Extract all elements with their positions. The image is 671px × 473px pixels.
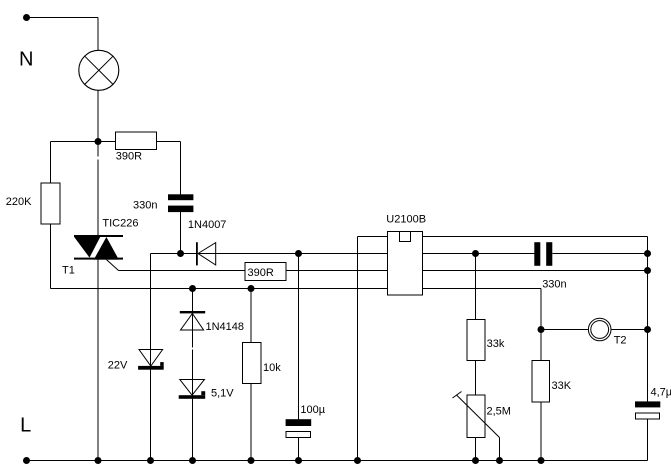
svg-text:220K: 220K <box>6 196 32 208</box>
svg-text:L: L <box>20 415 31 437</box>
svg-text:4,7µ: 4,7µ <box>651 387 671 399</box>
svg-text:10k: 10k <box>263 362 281 374</box>
svg-text:330n: 330n <box>542 279 566 291</box>
svg-text:22V: 22V <box>108 359 128 371</box>
svg-text:330n: 330n <box>133 200 157 212</box>
svg-text:100µ: 100µ <box>300 404 325 416</box>
svg-text:T1: T1 <box>62 264 75 276</box>
svg-text:1N4007: 1N4007 <box>188 219 227 231</box>
svg-text:33K: 33K <box>552 380 572 392</box>
svg-text:TIC226: TIC226 <box>102 217 138 229</box>
svg-text:N: N <box>19 49 33 71</box>
svg-text:390R: 390R <box>116 151 142 163</box>
svg-text:5,1V: 5,1V <box>211 388 234 400</box>
svg-text:2,5M: 2,5M <box>487 406 511 418</box>
svg-text:390R: 390R <box>248 267 274 279</box>
svg-text:T2: T2 <box>614 335 627 347</box>
svg-text:33k: 33k <box>487 338 505 350</box>
svg-text:U2100B: U2100B <box>386 214 426 226</box>
svg-text:1N4148: 1N4148 <box>206 321 245 333</box>
